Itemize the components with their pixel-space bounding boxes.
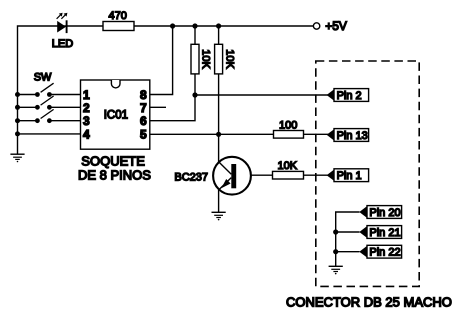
node junction: pin5 / collector [216, 132, 221, 137]
svg-text:IC01: IC01 [104, 110, 128, 122]
node junction: rail row2 [15, 105, 20, 110]
wire: pin5 row to R4 and Pin 13 [150, 133, 274, 135]
resistor R3 10K [215, 44, 223, 74]
switch SW1 [35, 83, 54, 97]
wire: R2 top lead [194, 26, 196, 44]
resistor R2 10K [191, 44, 199, 74]
svg-text:SOQUETE: SOQUETE [81, 153, 145, 168]
DB25 connector dashed outline [316, 61, 419, 286]
IC socket U1 body [81, 80, 150, 149]
svg-text:2: 2 [83, 101, 90, 115]
switch SW3 [35, 109, 54, 123]
node junction: rail / pin8 riser [170, 23, 175, 28]
svg-text:6: 6 [140, 114, 147, 128]
wire: pin8 riser to rail [150, 26, 173, 95]
svg-text:7: 7 [140, 101, 147, 115]
connector Pin 1 [327, 169, 369, 182]
svg-text:Pin 2: Pin 2 [337, 90, 362, 102]
node junction: rail row1 [15, 92, 20, 97]
svg-text:SW: SW [34, 72, 52, 84]
svg-text:3: 3 [83, 114, 90, 128]
node junction: rail row3 [15, 118, 20, 123]
connector Pin 13 [327, 129, 369, 142]
wire: transistor base to R5 [252, 174, 273, 176]
node junction: pin21 [333, 229, 338, 234]
wire: pin7 stub [150, 106, 166, 108]
wire: R3 bottom lead to collector node [218, 74, 220, 162]
svg-text:+5V: +5V [325, 19, 347, 33]
LED D1 [57, 13, 68, 33]
svg-text:Pin 1: Pin 1 [337, 170, 362, 182]
wire: +5V top rail [18, 26, 314, 154]
wire: R3 top lead [218, 26, 220, 44]
svg-text:Pin 22: Pin 22 [369, 247, 400, 259]
connector Pin 22 [359, 245, 401, 258]
wire: R5 to Pin 1 connector [304, 174, 329, 176]
wire: switch row 3 [18, 120, 38, 122]
wire: R4 to Pin 13 connector [304, 133, 329, 135]
svg-text:10K: 10K [200, 49, 212, 69]
ground (connector pins) [329, 266, 343, 274]
wire: emitter to ground [218, 190, 220, 212]
svg-text:470: 470 [109, 10, 127, 22]
svg-text:Pin 13: Pin 13 [337, 130, 368, 142]
wire: switch row 1 [18, 94, 38, 96]
transistor Q1 BC237 [213, 157, 251, 195]
resistor R4 100 [274, 131, 304, 139]
wire: node B to Pin 2 connector [195, 94, 328, 96]
wire: switch row 2 [18, 106, 38, 108]
wire: Pin 20 branch [336, 212, 360, 266]
resistor R5 10K [273, 171, 304, 179]
connector Pin 21 [359, 226, 401, 239]
terminal +5V [313, 23, 319, 29]
node junction: rail row4 [15, 131, 20, 136]
svg-text:DE 8 PINOS: DE 8 PINOS [78, 168, 151, 183]
svg-text:BC237: BC237 [174, 172, 208, 184]
node junction: rail / R2 [192, 23, 197, 28]
wire: Pin 21 branch [336, 231, 360, 233]
svg-text:10K: 10K [223, 49, 235, 69]
connector Pin 20 [359, 206, 401, 219]
svg-text:Pin 20: Pin 20 [369, 207, 400, 219]
wire: Pin 22 branch [336, 251, 360, 253]
resistor R1 470 [103, 22, 134, 31]
svg-text:Pin 21: Pin 21 [369, 227, 400, 239]
svg-text:100: 100 [279, 120, 297, 132]
svg-text:LED: LED [52, 38, 73, 50]
svg-text:CONECTOR DB 25 MACHO: CONECTOR DB 25 MACHO [286, 295, 452, 310]
node junction: R2 / Pin2 wire [192, 92, 197, 97]
node junction: pin22 [333, 249, 338, 254]
switch SW2 [35, 96, 54, 110]
svg-text:4: 4 [83, 127, 90, 141]
svg-text:10K: 10K [278, 160, 298, 172]
node junction: rail / R3 [216, 23, 221, 28]
wire: R2 bottom lead down to pin6 [150, 74, 195, 121]
svg-text:5: 5 [140, 127, 147, 141]
connector Pin 2 [327, 89, 369, 102]
IC notch [111, 80, 120, 88]
ground (emitter) [212, 212, 226, 220]
wire: row 4 direct to pin4 [18, 133, 81, 135]
ground (left rail) [10, 154, 24, 162]
